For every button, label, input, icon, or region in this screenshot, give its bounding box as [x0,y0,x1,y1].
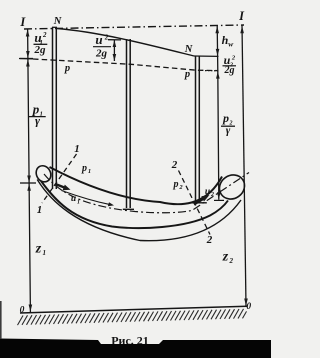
piezometer tube (middle) [126,39,128,208]
ground hatching below datum [18,309,247,325]
node 0 (right label) [246,302,251,312]
section line 1-1 (dashed) [42,154,77,203]
datum line 0-0 [20,306,247,313]
node p (right label) [184,69,190,80]
tick at tube 2 bottom [191,202,207,204]
tick at middle tube bottom [123,208,134,210]
svg-text:1: 1 [77,200,80,206]
label p2/gamma [222,111,233,137]
svg-text:u: u [205,187,210,197]
svg-text:γ: γ [35,113,40,127]
tick at pipe axis section 1 [20,182,36,184]
piezometer tube 2 [195,56,197,202]
pipe outlet ellipse (section 2) [215,170,249,204]
node 1 (bottom label) [37,204,43,216]
tick at p-line right end (dotted) [205,70,219,72]
bottom black bar (page edge) [0,339,271,358]
energy line I-I (dash-dot) [24,25,244,29]
svg-text:p: p [184,69,190,80]
label u1 [71,194,80,206]
svg-text:p: p [81,163,87,174]
node 2 (bottom label) [206,234,213,246]
svg-text:1: 1 [88,168,91,175]
svg-text:p: p [222,111,229,125]
svg-text:2g: 2g [95,48,108,60]
svg-text:0: 0 [20,306,25,316]
label p1 (pressure at section 1) [81,163,91,175]
svg-text:2: 2 [206,234,213,246]
velocity arrow u1 (bold, at section 1) [56,184,65,188]
label u1^2/2g [34,30,47,56]
wire: tick from N-line end to right dimension line [194,55,219,57]
arrowheads left line [26,29,32,311]
pipe axis (dash-dot) [44,173,249,213]
piezometer tube 1 [52,28,54,190]
svg-text:p: p [64,63,70,74]
label u2^2/2g [224,53,236,76]
velocity arrow u2 (bold, at section 2) [194,199,204,205]
label z1 [35,242,46,258]
svg-text:1: 1 [37,204,43,216]
svg-text:u: u [95,32,102,47]
tick near p2/gamma bottom [214,199,224,201]
piezometric line p-p (dashed) [19,58,33,60]
svg-text:N: N [184,44,193,55]
svg-text:N: N [53,16,62,27]
svg-text:p: p [173,179,179,190]
node I (right label) [238,9,245,23]
svg-text:2: 2 [104,34,109,42]
svg-text:z: z [35,242,42,257]
svg-text:2g: 2g [224,65,235,76]
middle u^2/2g dimension line [113,40,115,61]
svg-text:2: 2 [171,159,178,171]
long thin flow arrow u1 [62,191,111,205]
label h_w [222,33,235,48]
pipe top edge [50,167,223,204]
label p2 (pressure at section 2) [173,179,184,191]
section line 2-2 (dashed) [179,171,211,235]
node N (left label) [53,16,62,27]
pipe bottom front edge [41,181,228,228]
svg-text:2: 2 [210,192,214,198]
node 2 (top label) [171,159,178,171]
svg-text:2: 2 [42,31,47,39]
label p1/gamma [32,102,43,128]
right dimension line (h_w, u2^2/2g, p2/gamma) [217,26,219,200]
right total-head line (z2) [242,26,246,307]
svg-text:u: u [71,194,76,204]
svg-text:2g: 2g [34,44,47,56]
svg-text:1: 1 [74,143,80,155]
svg-text:2: 2 [229,257,234,265]
total head line N-N (sloping) [57,29,194,57]
left page edge shadow [0,301,2,339]
node 1 (top label) [74,143,80,155]
left dimension line (u1^2/2g, p1/gamma, z1) [28,29,31,312]
pipe bottom back edge [37,180,241,241]
node N (right label) [184,44,193,55]
tick at p-line left [20,58,33,60]
svg-text:z: z [222,250,229,265]
svg-text:0: 0 [246,302,251,312]
pipe inlet ellipse (section 1) [33,163,53,184]
node 0 (left label) [20,306,25,316]
node I (left label) [19,15,26,29]
label z2 [222,250,234,266]
svg-text:1: 1 [43,249,47,257]
label u2 [205,187,214,198]
label u^2/2g (middle) [95,32,109,60]
node p (left label) [64,63,70,74]
